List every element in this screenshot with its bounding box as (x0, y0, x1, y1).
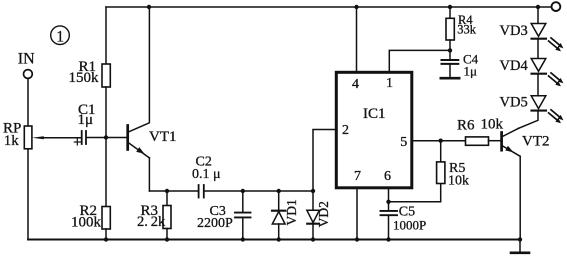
potentiometer RP 1k (24, 126, 81, 240)
svg-text:6: 6 (384, 169, 391, 184)
wire IN to RP (27, 79, 29, 126)
capacitor C1 1u (74, 131, 106, 145)
svg-text:5: 5 (400, 135, 407, 150)
svg-text:VD2: VD2 (316, 201, 331, 227)
svg-text:1μ: 1μ (78, 112, 94, 128)
svg-text:1μ: 1μ (464, 64, 478, 79)
svg-text:VT2: VT2 (522, 133, 550, 149)
node VD2 top / pin2 (311, 189, 315, 193)
svg-text:10k: 10k (448, 174, 469, 189)
svg-text:0.1 μ: 0.1 μ (192, 167, 221, 182)
capacitor C3 2200P (235, 191, 251, 240)
svg-text:VD5: VD5 (500, 94, 528, 110)
node R2 on ground (104, 237, 108, 241)
resistor R4 33k (446, 7, 454, 50)
resistor R3 2.2k (163, 191, 171, 240)
emission arrows VD4 (551, 73, 560, 80)
wire VD5 to VT2 collector (519, 112, 538, 129)
pin 4 wire (356, 7, 358, 71)
node R4/C4/pin1 (448, 48, 452, 52)
pin 2 wire (313, 130, 335, 192)
emitter with arrow (503, 146, 520, 156)
node R3 top (165, 189, 169, 193)
capacitor C4 1u (441, 50, 459, 78)
svg-text:33k: 33k (457, 23, 477, 37)
emission arrows VD5 (551, 110, 560, 117)
node VD1 top (277, 189, 281, 193)
svg-text:150k: 150k (69, 70, 100, 86)
pin 6 wire (388, 189, 390, 202)
svg-text:2. 2k: 2. 2k (137, 214, 166, 230)
node pin6/C5/R5 (386, 200, 390, 204)
LED VD3 (531, 7, 563, 51)
plus sign of C1 (74, 141, 80, 143)
resistor R1 150k (102, 7, 110, 138)
pin 1 wire (389, 50, 450, 71)
pin 7 wire (356, 189, 358, 240)
svg-text:1000P: 1000P (393, 218, 426, 233)
capacitor C2 0.1u (199, 185, 313, 198)
node LED chain on bus (536, 5, 540, 9)
emission arrows VD3 (551, 38, 560, 45)
circled figure number 1 (51, 26, 70, 45)
resistor R6 10k (441, 137, 502, 145)
node VT2 emitter on ground (518, 237, 522, 241)
diode VD1 (272, 191, 286, 240)
ground bar of C4 (441, 77, 459, 80)
node VT1 collector on bus (147, 5, 151, 9)
svg-text:IN: IN (18, 51, 35, 68)
resistor R5 10k (437, 141, 445, 184)
capacitor C5 1000P (381, 202, 398, 240)
wiper arrow (40, 137, 81, 139)
node VD1 on ground (277, 237, 281, 241)
node pin5/R5/R6 (439, 139, 443, 143)
svg-text:1: 1 (56, 28, 64, 45)
svg-text:1k: 1k (4, 133, 20, 149)
node C3 on ground (241, 237, 245, 241)
emitter with arrow (129, 143, 150, 158)
terminal IN (24, 70, 33, 79)
LED VD5 (519, 75, 564, 129)
svg-text:IC1: IC1 (363, 106, 386, 122)
resistor R2 100k (102, 138, 110, 240)
svg-text:4: 4 (352, 77, 359, 92)
svg-text:VD3: VD3 (500, 23, 528, 39)
node C5 on ground (386, 237, 390, 241)
wire R5 bottom to pin6 (389, 184, 441, 202)
svg-text:100k: 100k (71, 214, 102, 230)
node VD2 on ground (311, 237, 315, 241)
svg-text:2200P: 2200P (197, 216, 233, 231)
transistor VT1 (106, 7, 149, 191)
LED VD4 (531, 40, 563, 87)
collector (129, 7, 150, 132)
svg-text:1: 1 (386, 76, 393, 91)
IC1 box (336, 72, 412, 188)
node pin7 on ground (355, 237, 359, 241)
svg-text:VD1: VD1 (284, 199, 299, 225)
transistor VT2 (502, 128, 521, 239)
svg-text:R6: R6 (457, 117, 475, 133)
collector (503, 128, 519, 136)
svg-text:7: 7 (354, 169, 361, 184)
wire emitter signal line (150, 190, 198, 192)
ground symbol bottom right (511, 240, 529, 253)
terminal supply (top right) (552, 2, 561, 11)
svg-text:VT1: VT1 (149, 129, 177, 145)
node C3 top (241, 189, 245, 193)
svg-text:2: 2 (342, 123, 349, 138)
diode VD2 (307, 191, 319, 240)
svg-text:10k: 10k (481, 117, 504, 133)
svg-text:VD4: VD4 (500, 58, 529, 74)
pin 5 wire (413, 140, 441, 142)
wire top supply bus (106, 6, 551, 8)
node C1/R1/base junction (104, 135, 108, 139)
node pin4 on bus (354, 5, 358, 9)
node R4 on bus (448, 5, 452, 9)
node R3 on ground (165, 237, 169, 241)
wire bottom ground bus (28, 239, 520, 241)
